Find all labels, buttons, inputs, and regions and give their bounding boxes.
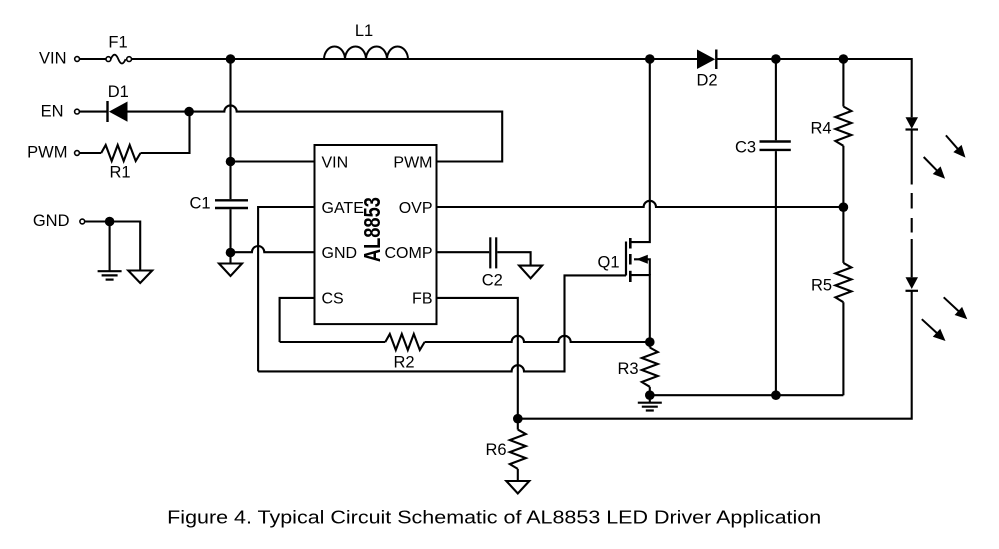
- svg-text:GATE: GATE: [322, 200, 364, 217]
- svg-text:PWM: PWM: [27, 143, 67, 161]
- svg-text:EN: EN: [41, 103, 64, 121]
- svg-text:GND: GND: [33, 212, 70, 230]
- svg-text:AL8853: AL8853: [359, 197, 385, 262]
- svg-text:L1: L1: [355, 22, 373, 40]
- svg-text:CS: CS: [322, 291, 344, 308]
- svg-text:R3: R3: [617, 360, 638, 378]
- svg-text:C2: C2: [482, 272, 503, 290]
- svg-text:F1: F1: [108, 34, 127, 52]
- svg-text:C1: C1: [189, 195, 210, 213]
- svg-text:VIN: VIN: [39, 49, 67, 67]
- svg-text:D1: D1: [108, 83, 129, 101]
- svg-text:R5: R5: [811, 277, 832, 295]
- svg-text:OVP: OVP: [399, 200, 433, 217]
- svg-text:GND: GND: [322, 245, 358, 262]
- svg-text:COMP: COMP: [385, 245, 433, 262]
- svg-text:FB: FB: [412, 291, 432, 308]
- svg-text:D2: D2: [696, 72, 717, 90]
- svg-text:R1: R1: [109, 164, 130, 182]
- svg-text:C3: C3: [735, 139, 756, 157]
- svg-text:R2: R2: [393, 354, 414, 372]
- svg-text:Figure 4. Typical Circuit Sche: Figure 4. Typical Circuit Schematic of A…: [167, 507, 821, 528]
- svg-text:VIN: VIN: [322, 154, 349, 171]
- svg-text:R4: R4: [810, 120, 831, 138]
- svg-text:R6: R6: [485, 441, 506, 459]
- svg-text:PWM: PWM: [393, 154, 432, 171]
- svg-text:Q1: Q1: [597, 254, 619, 272]
